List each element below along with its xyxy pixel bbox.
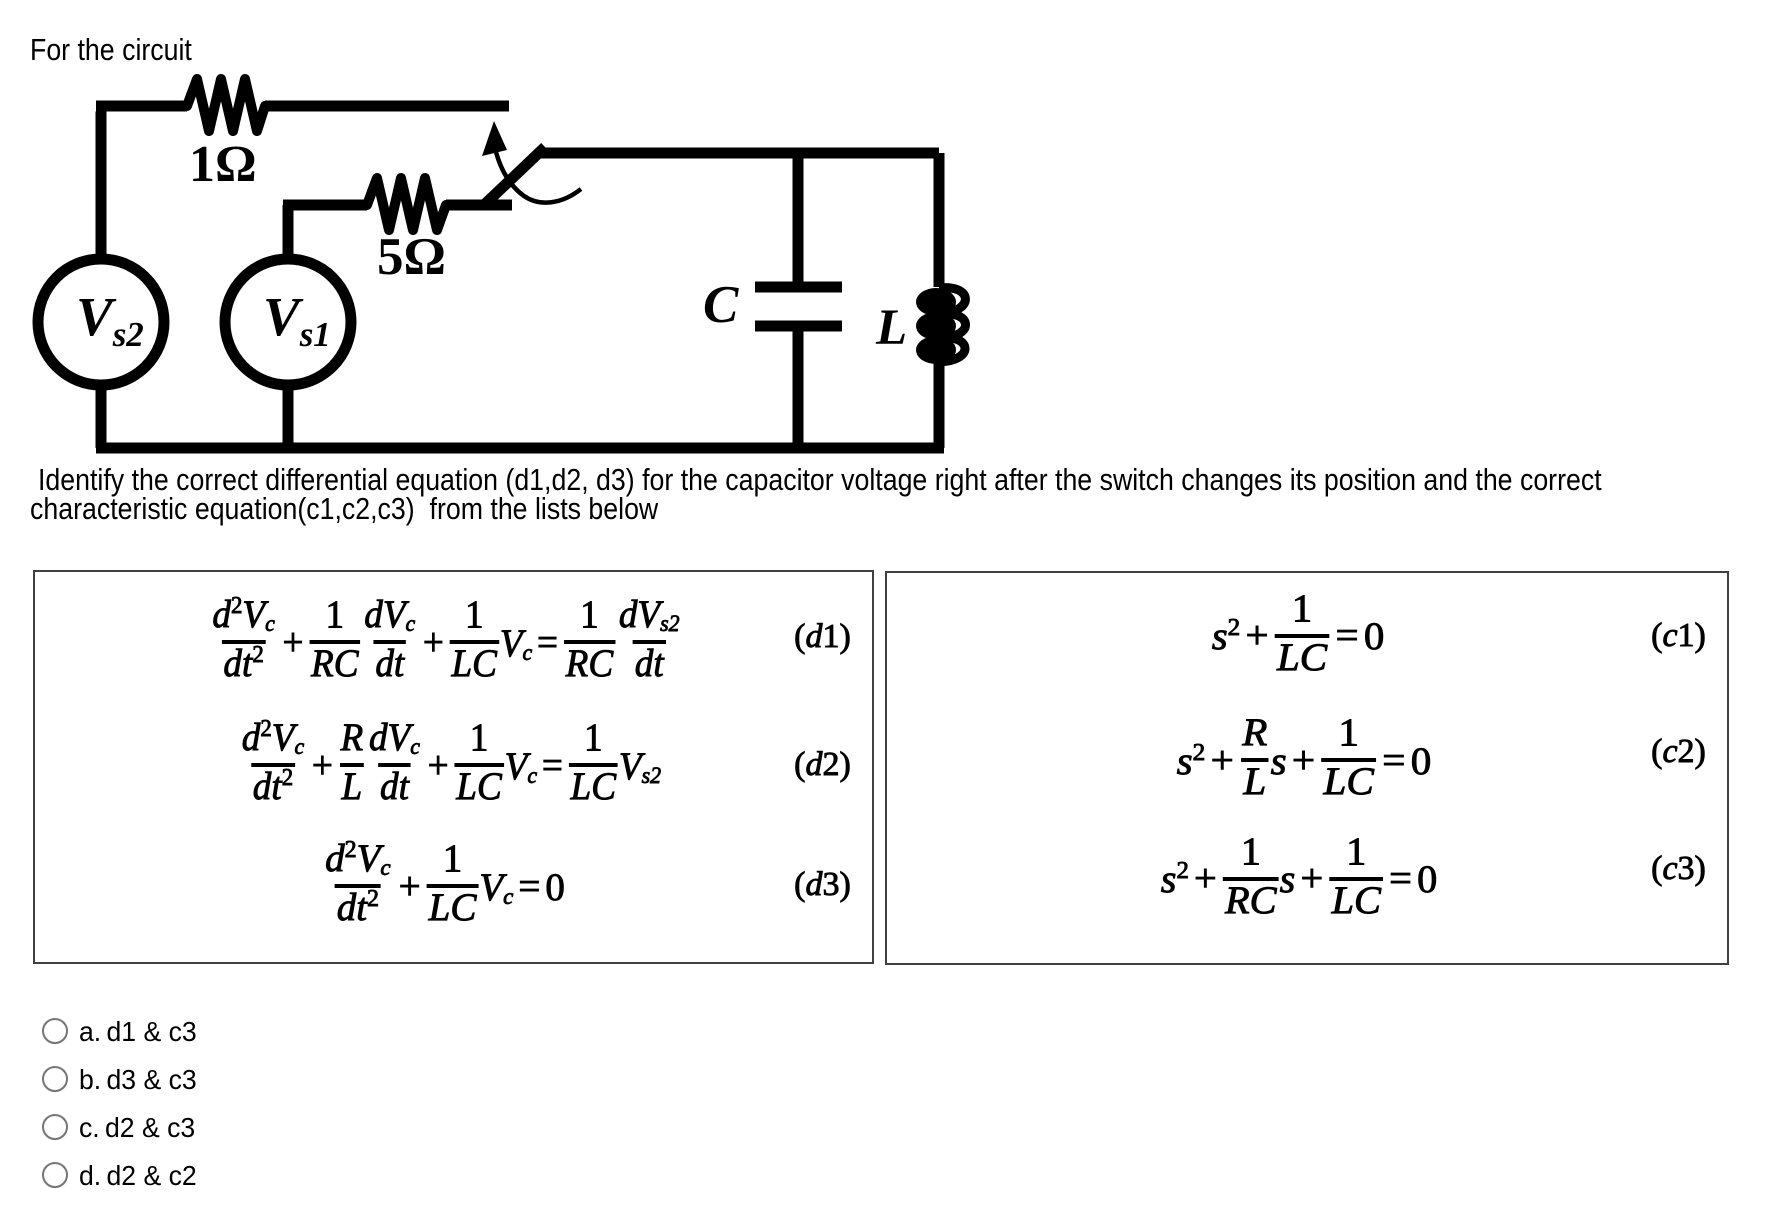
svg-text:1Ω: 1Ω <box>189 136 257 193</box>
svg-text:L: L <box>875 300 907 356</box>
svg-text:5Ω: 5Ω <box>377 228 446 286</box>
svg-text:Vs2: Vs2 <box>76 286 144 354</box>
svg-text:C: C <box>703 276 739 334</box>
svg-text:Vs1: Vs1 <box>263 286 331 354</box>
